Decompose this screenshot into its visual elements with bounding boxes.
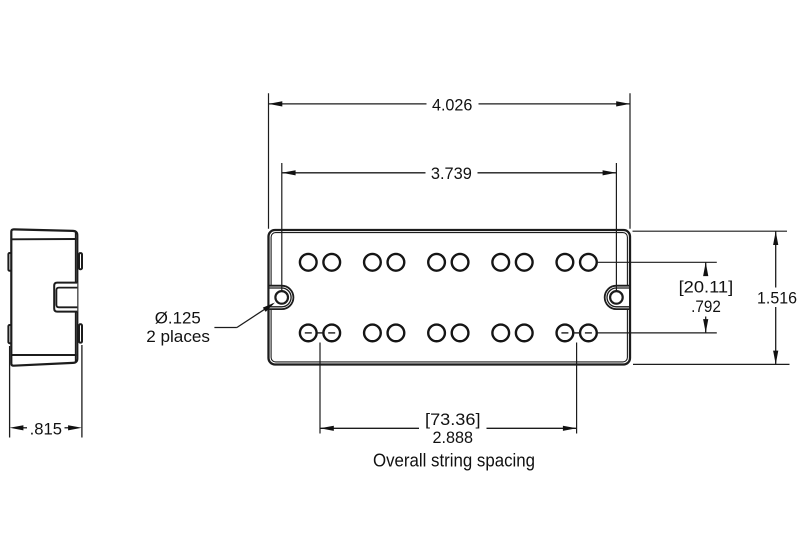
svg-text:.792: .792 — [691, 297, 721, 316]
svg-text:2.888: 2.888 — [433, 428, 474, 447]
svg-text:Overall string spacing: Overall string spacing — [373, 450, 535, 470]
svg-text:Ø.125: Ø.125 — [155, 309, 201, 328]
svg-text:[20.11]: [20.11] — [679, 277, 734, 296]
svg-text:[73.36]: [73.36] — [425, 410, 481, 429]
svg-text:4.026: 4.026 — [432, 95, 473, 114]
svg-text:.815: .815 — [30, 420, 62, 439]
svg-text:2 places: 2 places — [146, 327, 210, 346]
svg-text:1.516: 1.516 — [757, 288, 797, 307]
svg-text:3.739: 3.739 — [431, 164, 472, 183]
